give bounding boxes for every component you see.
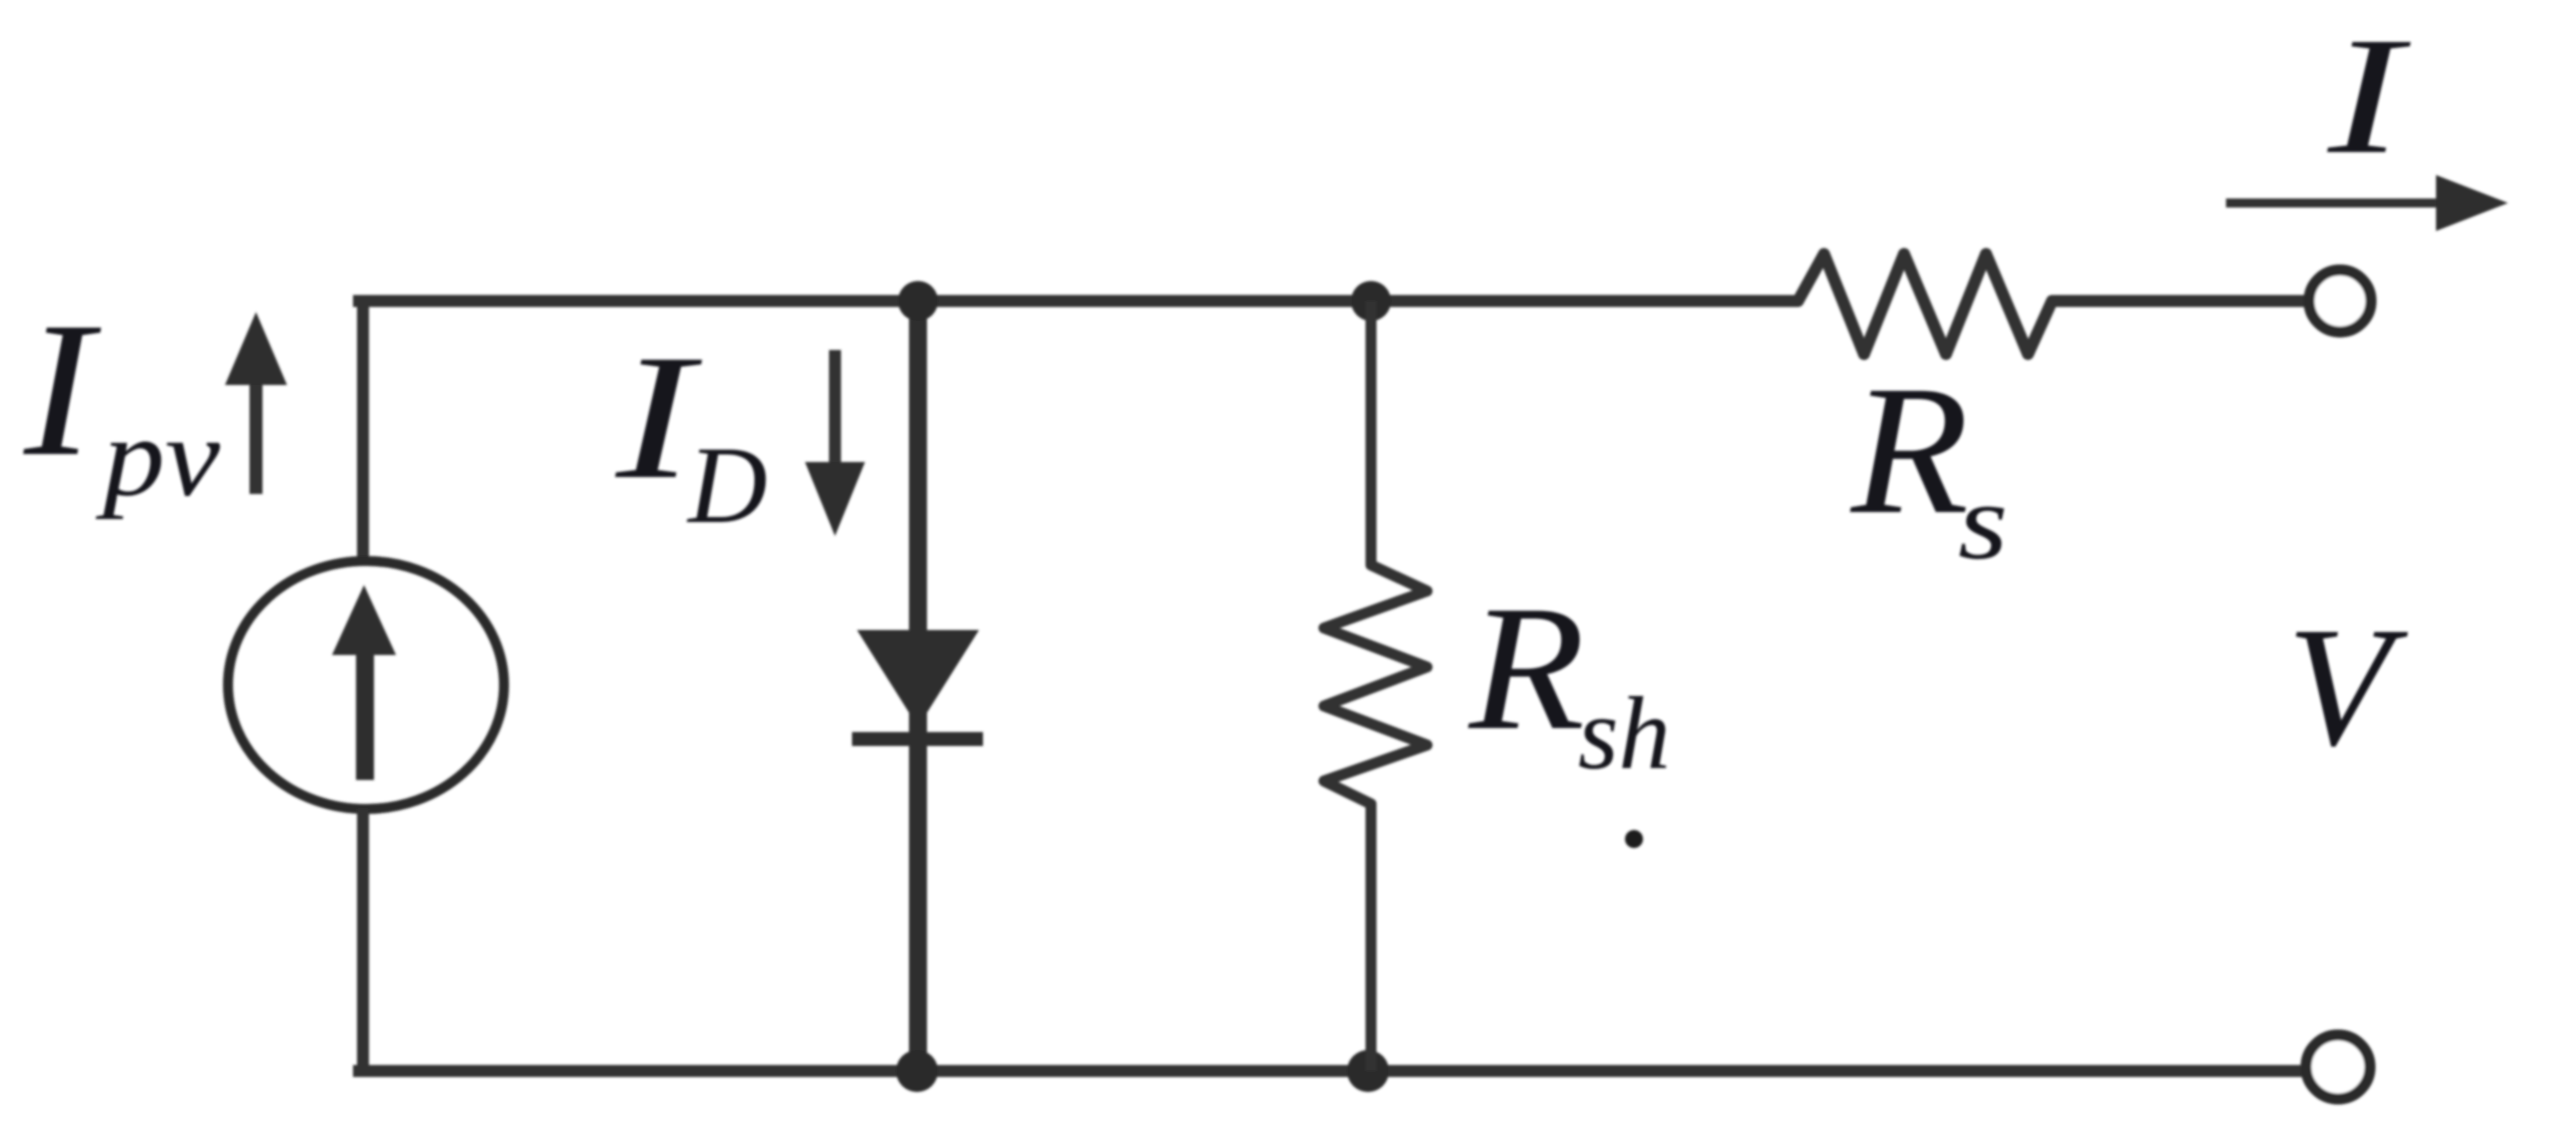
- svg-text:I: I: [23, 282, 101, 496]
- diode D: [852, 630, 983, 739]
- wire: top bus right section: [2052, 295, 2307, 307]
- node: top diode junction: [898, 281, 938, 321]
- svg-text:s: s: [1958, 461, 2008, 582]
- current source Ipv: [228, 561, 504, 809]
- label Ipv: [23, 282, 221, 520]
- label Rs: [1850, 348, 2008, 582]
- label Rsh: [1468, 568, 1671, 791]
- node: bottom Rsh junction: [1347, 1050, 1389, 1092]
- wire: Rsh branch top: [1366, 301, 1377, 565]
- resistor Rs: [1786, 254, 2064, 354]
- wire: left branch top: [357, 301, 369, 565]
- arrow ID: [805, 350, 865, 536]
- arrow Ipv: [225, 312, 287, 494]
- node: top Rsh junction: [1351, 281, 1391, 321]
- terminal: negative output: [2306, 1035, 2370, 1099]
- stray dot: [1625, 830, 1643, 848]
- label V: [2287, 592, 2408, 781]
- wire: diode branch: [909, 301, 927, 1071]
- svg-text:I: I: [2327, 3, 2412, 189]
- svg-text:sh: sh: [1578, 676, 1670, 791]
- wire: top bus left section: [353, 295, 1798, 307]
- terminal: positive output: [2309, 270, 2371, 332]
- wire: bottom bus: [353, 1065, 2305, 1077]
- wire: left branch bottom: [357, 809, 369, 1071]
- svg-text:R: R: [1468, 568, 1585, 767]
- node: bottom diode junction: [896, 1050, 938, 1092]
- current arrow I: [2226, 175, 2508, 231]
- svg-text:pv: pv: [95, 395, 221, 520]
- wire: Rsh branch bottom: [1366, 804, 1377, 1071]
- resistor Rsh: [1324, 553, 1427, 816]
- svg-text:D: D: [686, 424, 767, 546]
- label I: [2327, 3, 2412, 189]
- svg-text:V: V: [2287, 592, 2408, 781]
- label ID: [615, 317, 768, 546]
- svg-text:R: R: [1850, 348, 1969, 553]
